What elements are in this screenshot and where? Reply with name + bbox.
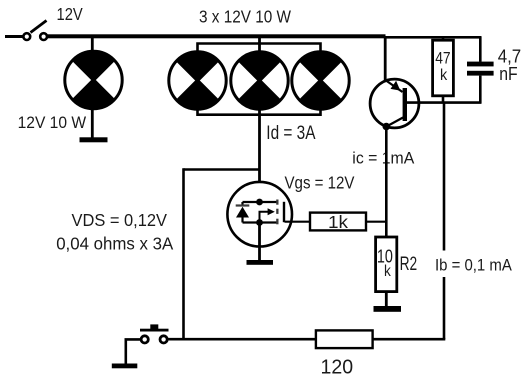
resistor R2 10k: [376, 237, 397, 292]
label ic = 1mA: [351, 150, 417, 171]
wire: lamp bank top bus: [198, 44, 321, 53]
top junction dot: [256, 199, 263, 206]
svg-text:0,04 ohms x 3A: 0,04 ohms x 3A: [56, 233, 173, 253]
label Ib = 0,1 mA (white backed): [432, 251, 514, 278]
svg-text:Id = 3A: Id = 3A: [266, 122, 315, 144]
lamp L4: [292, 52, 349, 109]
svg-text:R2: R2: [400, 254, 418, 275]
ground (lamp L1): [80, 137, 108, 142]
body diode cathode bar: [236, 204, 250, 206]
wire: 1k right lead to emitter node: [366, 221, 386, 223]
bottom junction dot: [256, 219, 263, 226]
wire: drain wire Id: [258, 109, 261, 183]
wire: +12V top bus (thick): [47, 34, 386, 38]
svg-text:nF: nF: [499, 64, 517, 84]
wire: lamp bank bottom bus: [198, 108, 321, 115]
substrate arrow: [260, 212, 270, 223]
body diode triangle: [236, 207, 249, 218]
internal top wire: [243, 201, 278, 203]
lamp L1: [65, 38, 122, 138]
svg-text:3 x 12V 10 W: 3 x 12V 10 W: [199, 7, 291, 27]
wire: bottom rail left (pushbutton to 120): [166, 338, 316, 341]
emitter diagonal with arrow: [386, 81, 403, 93]
wire: bottom rail right (120 to Ib branch): [373, 338, 446, 341]
wire: base wire to capacitor branch: [407, 101, 482, 104]
lamp L3: [231, 52, 288, 109]
ground (R2): [374, 306, 402, 312]
wire: top bus thin extension to capacitor branch: [384, 36, 482, 39]
channel segments: [276, 200, 278, 205]
wire: horizontal wire drain to left vertical: [184, 168, 260, 171]
gate bar: [283, 202, 285, 222]
wire: gate lead to 1k: [285, 221, 311, 223]
svg-text:Ib = 0,1 mA: Ib = 0,1 mA: [435, 255, 512, 274]
wire: 10k bottom stub: [385, 292, 388, 307]
switch S1: [23, 21, 47, 40]
body diode left leg: [241, 202, 243, 223]
wire: left vertical down to bottom rail: [182, 168, 185, 339]
resistor 120: [316, 330, 373, 348]
svg-text:47: 47: [435, 49, 450, 68]
base bar: [403, 88, 407, 121]
pushbutton SW1: [140, 324, 169, 343]
collector diagonal: [387, 118, 404, 127]
ground (pushbutton): [112, 364, 138, 369]
wire: emitter vertical down to 10k: [385, 127, 388, 239]
emitter junction dot: [383, 123, 391, 131]
transistor Q2: [370, 79, 419, 130]
wire: stub from bus to lamp bank: [258, 37, 261, 53]
svg-text:120: 120: [321, 355, 354, 378]
svg-text:ic = 1mA: ic = 1mA: [352, 148, 415, 167]
ground (MOSFET source): [247, 225, 274, 265]
resistor 1k: [310, 212, 366, 232]
capacitor C1 4,7nF: [467, 37, 494, 103]
wire: left supply stub: [5, 35, 23, 38]
wire: pushbutton left lead to ground: [126, 339, 141, 364]
svg-text:VDS = 0,12V: VDS = 0,12V: [72, 210, 168, 230]
resistor 47k: [433, 38, 454, 103]
svg-text:12V 10 W: 12V 10 W: [18, 113, 87, 132]
wire: collector stub: [384, 38, 387, 80]
svg-text:1k: 1k: [328, 212, 348, 232]
svg-text:k: k: [384, 263, 391, 280]
wire: Ib vertical branch: [443, 103, 446, 340]
lamp L2: [169, 52, 226, 109]
svg-text:Vgs = 12V: Vgs = 12V: [285, 172, 355, 192]
svg-text:12V: 12V: [57, 4, 83, 24]
svg-text:k: k: [440, 67, 448, 84]
MOSFET Q1: [227, 182, 292, 247]
internal bottom wire: [243, 221, 278, 223]
